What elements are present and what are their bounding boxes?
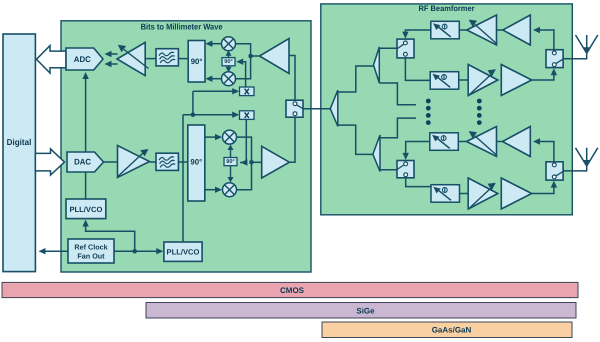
filter F1 (RX) bbox=[156, 49, 178, 66]
quad hybrid 90-2 (TX) bbox=[188, 125, 205, 201]
arrowhead RX1 into switch A bbox=[402, 32, 408, 39]
T/R switch SW1 bbox=[286, 100, 303, 117]
wire PLL2 to LO bbox=[182, 115, 184, 242]
wire splitter bottom branch bbox=[337, 125, 373, 154]
mixer M3 (TX I) bbox=[223, 130, 237, 144]
beamformer wires bbox=[337, 30, 587, 194]
amplifier VGA1 (RX) bbox=[117, 42, 145, 75]
wire DAC to VGA2 bbox=[103, 161, 118, 163]
node ref clock junction bbox=[132, 249, 137, 254]
wire TX amp out to switch bbox=[289, 117, 295, 162]
node LO branch junction bbox=[191, 112, 196, 117]
wire switch1 to beamformer bbox=[303, 108, 330, 110]
arrowhead ADC Q line bbox=[105, 61, 112, 67]
filter F2 (TX) bbox=[156, 153, 178, 170]
svg-text:GaAs/GaN: GaAs/GaN bbox=[432, 326, 472, 335]
DAC block bbox=[67, 152, 104, 172]
wire TX1 switch A to phase bbox=[405, 58, 430, 81]
wire RX1 phase to VGA bbox=[459, 29, 466, 31]
green box: RF Beamformer bbox=[321, 4, 573, 215]
T/R switch B (right top) bbox=[546, 50, 563, 68]
svg-text:Bits to Millimeter Wave: Bits to Millimeter Wave bbox=[141, 22, 223, 32]
ADC block bbox=[66, 48, 103, 70]
wire RX2 phase to VGA bbox=[459, 141, 467, 143]
mixer M2 (RX Q) bbox=[222, 72, 236, 86]
arrowhead mixer2 into 90-1 bbox=[205, 76, 212, 82]
wire antenna 1 feed bbox=[563, 53, 587, 59]
Digital box bbox=[3, 34, 35, 272]
arrowhead LO into X2 bbox=[232, 112, 239, 118]
arrowhead LO into small 90 TX bbox=[240, 159, 247, 165]
wire RX combine bbox=[236, 44, 251, 79]
splitter 2 bbox=[374, 47, 380, 83]
wire clock DAC to ADC bbox=[85, 77, 87, 152]
svg-text:PLL/VCO: PLL/VCO bbox=[167, 248, 200, 257]
wire TX LO from X2 to small 90 bbox=[240, 118, 246, 162]
svg-text:Digital: Digital bbox=[7, 137, 32, 147]
wire TX2 to switch D bbox=[532, 185, 554, 194]
wire RX2 from switch D bbox=[536, 142, 554, 162]
antenna 1 bbox=[576, 35, 598, 53]
amplifier VGA2 (TX) bbox=[118, 146, 150, 178]
wire RX1 amps bbox=[497, 29, 503, 31]
wire RX2 amps bbox=[497, 141, 503, 143]
CMOS bar bbox=[2, 282, 578, 297]
svg-text:CMOS: CMOS bbox=[280, 286, 305, 295]
arrowhead RX1 into LNA bbox=[533, 27, 540, 33]
arrowhead TX2 into switch D bbox=[551, 181, 557, 188]
quad hybrid 90-1 (RX) bbox=[188, 41, 205, 83]
wire filter2 to 90-2 bbox=[179, 161, 188, 163]
T/R switch C (left bottom) bbox=[397, 161, 414, 178]
wire 90-2 to mixer4 bbox=[205, 189, 217, 191]
wire VGA2 to filter2 bbox=[150, 161, 156, 163]
wire RX2 phase to switch C bbox=[406, 142, 430, 157]
big hollow arrow Digital to DAC bbox=[35, 149, 64, 175]
wire TX2 switch C to phase bbox=[406, 178, 431, 187]
amplifier VGA TX1 bbox=[468, 65, 498, 96]
wire filter1 to 90-1 bbox=[178, 58, 188, 60]
PLL/VCO 2 bbox=[164, 242, 202, 261]
wire TX1 to switch B bbox=[532, 73, 554, 81]
T/R switch A (left top) bbox=[397, 39, 414, 58]
svg-text:90°: 90° bbox=[226, 159, 234, 165]
wire 90-2 to mixer3 bbox=[205, 136, 217, 138]
wire splitter2 to switch A bbox=[379, 47, 397, 49]
wire RX LO from X1 to small 90 bbox=[238, 62, 246, 87]
multiplier X1 (RX LO) bbox=[240, 87, 255, 96]
arrowhead 90-2 into mixer3 bbox=[215, 134, 222, 140]
wire ref to PLL1 bbox=[86, 225, 135, 251]
wire LO to X1 bbox=[193, 90, 235, 92]
svg-text:90°: 90° bbox=[190, 157, 202, 166]
amplifier PA TX2 bbox=[501, 178, 531, 209]
wire RX1 from switch B bbox=[536, 30, 554, 50]
amplifier LNA RX1 bbox=[503, 15, 531, 45]
svg-text:90°: 90° bbox=[191, 57, 203, 66]
wire antenna 2 feed bbox=[563, 166, 587, 171]
arrowhead RX2 into LNA bbox=[533, 138, 540, 144]
ellipsis dots left bbox=[426, 99, 431, 125]
wire TX junction to amp bbox=[252, 161, 262, 163]
wire ref to digital bbox=[43, 250, 68, 252]
wire mixer2 to 90-1 bbox=[207, 78, 222, 80]
arrowhead LO into X1 bbox=[232, 88, 239, 94]
phase shifter P1 (RX top) bbox=[431, 21, 460, 39]
amplifier VGA RX2 bbox=[467, 127, 497, 157]
amplifier VGA TX2 bbox=[468, 178, 498, 209]
wire ADC Q line bbox=[107, 63, 118, 65]
wire TX2 phase to VGA bbox=[460, 193, 469, 195]
ellipsis dots right bbox=[477, 99, 482, 125]
wire branch stub lower to dots bbox=[380, 118, 416, 138]
multiplier X2 (TX LO) bbox=[240, 111, 255, 120]
arrowhead TX1 into switch B bbox=[551, 68, 557, 75]
svg-text:PLL/VCO: PLL/VCO bbox=[69, 205, 102, 214]
node TX combine junction bbox=[249, 160, 254, 165]
amplifier A1 (RX big) bbox=[260, 39, 290, 74]
LO splitter 90 small (RX) bbox=[222, 58, 235, 66]
wire LO branch vertical bbox=[192, 91, 194, 114]
arrowhead mixer1 into 90-1 bbox=[205, 41, 212, 47]
splitter 1 bbox=[330, 90, 338, 126]
amplifier A2 (TX big) bbox=[262, 146, 290, 178]
wire splitter3 to switch C bbox=[380, 169, 398, 171]
wire TX combine bbox=[237, 137, 252, 190]
GaAs/GaN bar bbox=[322, 322, 572, 338]
wire mixer1 to 90-1 bbox=[207, 43, 222, 45]
svg-text:ADC: ADC bbox=[74, 55, 91, 64]
node RX combine junction bbox=[248, 54, 253, 59]
arrowhead ref into Digital bbox=[39, 248, 46, 254]
wire LO main horizontal bbox=[183, 114, 236, 116]
svg-text:RF Beamformer: RF Beamformer bbox=[419, 4, 475, 13]
wire RX junction to amp bbox=[251, 55, 260, 57]
wire VGA1 to filter1 bbox=[145, 58, 156, 60]
wire clock PLL1 to DAC bbox=[85, 172, 87, 199]
arrowhead LO into small 90 RX bbox=[236, 59, 243, 65]
amplifier LNA RX2 bbox=[503, 127, 531, 157]
green box: Bits to Millimeter Wave bbox=[61, 21, 311, 272]
svg-text:DAC: DAC bbox=[74, 158, 91, 167]
PLL/VCO 1 bbox=[66, 199, 106, 219]
mixer M4 (TX Q) bbox=[223, 183, 237, 197]
svg-text:Ref Clock: Ref Clock bbox=[74, 242, 107, 251]
Ref Clock Fan Out bbox=[68, 239, 114, 263]
arrowhead ref into PLL2 bbox=[156, 248, 163, 254]
svg-text:Fan Out: Fan Out bbox=[77, 252, 105, 261]
wire RX1 phase to switch A bbox=[405, 30, 430, 35]
amplifier PA TX1 bbox=[501, 65, 531, 96]
LO splitter 90 small (TX) bbox=[224, 158, 237, 166]
arrowhead ADC I line bbox=[105, 51, 112, 57]
wire splitter top branch bbox=[337, 66, 374, 92]
wire ref to PLL2 bbox=[114, 250, 158, 252]
phase shifter P4 (TX bottom) bbox=[431, 185, 460, 203]
arrowhead RX2 into switch C bbox=[403, 153, 409, 160]
arrowhead 90-2 into mixer4 bbox=[215, 187, 222, 193]
wire RX amp input from switch bbox=[289, 56, 295, 101]
wire ADC I line bbox=[107, 53, 118, 55]
wire TX1 phase to VGA bbox=[458, 79, 468, 81]
arrowhead clock into ADC bbox=[82, 72, 88, 79]
phase shifter P2 (TX top) bbox=[430, 72, 459, 90]
mixer M1 (RX I) bbox=[222, 37, 236, 51]
wire branch stub upper to dots bbox=[379, 83, 416, 105]
T/R switch D (right bottom) bbox=[546, 162, 563, 180]
arrowhead ref into PLL1 bbox=[82, 220, 88, 227]
amplifier VGA RX1 bbox=[467, 15, 497, 45]
SiGe bar bbox=[146, 303, 576, 319]
svg-text:SiGe: SiGe bbox=[356, 306, 375, 315]
phase shifter P3 (RX bottom) bbox=[430, 133, 459, 151]
big hollow arrow ADC to Digital bbox=[36, 46, 66, 73]
antenna 2 bbox=[576, 148, 598, 166]
svg-text:90°: 90° bbox=[224, 59, 232, 65]
splitter 3 bbox=[373, 135, 380, 172]
